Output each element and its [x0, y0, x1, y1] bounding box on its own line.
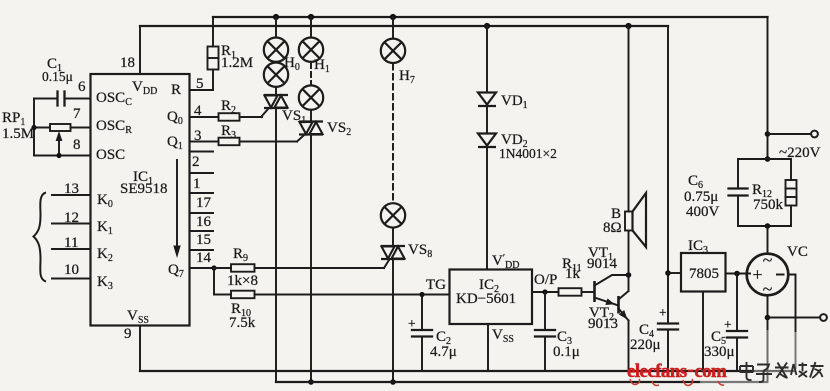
svg-text:Q0: Q0 [167, 109, 183, 127]
node dot Q7 [211, 265, 216, 270]
svg-text:9013: 9013 [588, 316, 618, 332]
node dot VS8 bottom [390, 379, 396, 385]
speaker B [625, 193, 646, 247]
transistor VT1 [595, 275, 630, 306]
wire: Q7 output [190, 267, 215, 269]
node dot H0 top [273, 14, 279, 20]
svg-text:17: 17 [196, 195, 212, 211]
IC2 KD-5601 [450, 270, 533, 325]
svg-text:1.5M: 1.5M [2, 126, 34, 142]
wire: triac bus line B [276, 381, 700, 383]
svg-text:3: 3 [194, 128, 202, 144]
svg-text:R9: R9 [233, 246, 248, 264]
svg-text:KD−5601: KD−5601 [456, 291, 516, 307]
svg-text:9014: 9014 [587, 256, 618, 272]
watermark red squiggles [630, 379, 724, 386]
capacitor C5 [727, 274, 747, 372]
wire: VS2 down to bus B [310, 135, 312, 383]
svg-text:H7: H7 [399, 68, 415, 86]
wire: VS1 down to bus B [275, 108, 277, 382]
node dot VS2 bottom [308, 379, 314, 385]
svg-text:1: 1 [193, 176, 201, 192]
node dot VT1 collector [626, 272, 632, 278]
svg-text:1k: 1k [565, 266, 581, 282]
svg-text:K3: K3 [97, 274, 113, 292]
arrow inside IC1 [173, 160, 180, 258]
node dot AC bottom tap [765, 315, 771, 321]
wire: VDD supply bus [140, 25, 668, 27]
svg-text:SE9518: SE9518 [120, 181, 168, 197]
capacitor C3 [535, 292, 555, 371]
wire: H7 dashed [392, 64, 394, 203]
wire: K2 pin11 [52, 248, 91, 250]
svg-text:0.1μ: 0.1μ [553, 344, 580, 360]
node dot IC3 input [665, 270, 671, 276]
lamp H8 column lower [381, 203, 405, 227]
svg-text:8: 8 [73, 137, 81, 153]
svg-text:~: ~ [763, 250, 773, 270]
svg-text:H1: H1 [314, 57, 330, 75]
svg-text:4.7μ: 4.7μ [430, 344, 457, 360]
IC3 7805 [681, 253, 726, 292]
svg-text:6: 6 [78, 79, 86, 95]
svg-text:V′DD: V′DD [492, 253, 519, 271]
svg-text:TG: TG [426, 277, 446, 293]
pin stub 16 [190, 212, 214, 214]
svg-text:12: 12 [64, 210, 79, 226]
pin stub 2 [190, 151, 214, 153]
svg-text:VSS: VSS [492, 327, 514, 345]
wire: left osc vertical [33, 99, 35, 156]
svg-text:VS1: VS1 [282, 108, 306, 126]
svg-text:220μ: 220μ [630, 337, 661, 353]
capacitor C2 [412, 295, 432, 372]
resistor R1 [190, 17, 219, 90]
svg-text:4: 4 [194, 103, 202, 119]
svg-text:16: 16 [196, 214, 212, 230]
svg-text:14: 14 [196, 250, 212, 266]
wire: H0 to VS1 [275, 87, 277, 95]
wire: H1 to VS2 [310, 110, 312, 122]
wire: VC right to line A corner [788, 275, 796, 333]
lamp H1 upper [299, 38, 323, 62]
svg-text:400V: 400V [686, 204, 720, 220]
svg-text:330μ: 330μ [704, 344, 735, 360]
svg-text:+: + [752, 265, 762, 285]
resistor R10 [214, 291, 450, 299]
capacitor C4 [658, 324, 678, 372]
triac VS1 [264, 95, 288, 108]
svg-text:+: + [724, 317, 732, 332]
wire: speaker to collectors [628, 231, 630, 292]
wire: lamp to VS8 [392, 228, 394, 246]
svg-text:9: 9 [124, 326, 132, 342]
svg-text:R2: R2 [221, 98, 236, 116]
node dot VD chain top [484, 23, 490, 29]
svg-text:15: 15 [196, 232, 211, 248]
svg-text:13: 13 [64, 181, 79, 197]
svg-text:+: + [408, 316, 416, 331]
wire: K3 pin10 [52, 278, 91, 280]
svg-text:K1: K1 [97, 219, 113, 237]
svg-text:OSCR: OSCR [96, 118, 132, 136]
svg-text:10: 10 [64, 262, 79, 278]
node dot AC top terminal tap [765, 131, 771, 137]
potentiometer RP1 [34, 124, 91, 156]
wire: IC3 gnd [702, 292, 704, 372]
lamp H7 [381, 39, 405, 63]
svg-text:VC: VC [787, 244, 808, 260]
svg-text:VSS: VSS [127, 308, 149, 326]
triac VS2 [299, 122, 323, 135]
svg-text:OSCC: OSCC [96, 90, 132, 108]
svg-text:7.5k: 7.5k [229, 315, 256, 331]
terminal AC bottom [820, 314, 827, 321]
svg-text:11: 11 [64, 235, 78, 251]
pin stub 1 [190, 172, 214, 174]
svg-text:VDD: VDD [132, 79, 157, 97]
wire: H1 drop [310, 17, 312, 38]
bridge rectifier VC [747, 250, 789, 299]
wire: top right corner down [767, 17, 769, 159]
resistor R12 [786, 159, 797, 226]
node dot RC net top [765, 156, 771, 162]
lamp H0 lower [264, 62, 288, 86]
wire: to IC3 left [668, 272, 681, 274]
wire: to AC top terminal [768, 133, 812, 135]
wire: pin8 OSC [34, 155, 91, 157]
svg-text:VD1: VD1 [501, 93, 528, 111]
wire: net to VC top [767, 226, 769, 254]
wire: Q7 split vertical [213, 268, 215, 295]
wire: VS8 down to bus B [392, 259, 394, 382]
wire: K0 pin13 [52, 194, 91, 196]
IC1 SE9518 [91, 74, 190, 326]
wire: ground bus line A [140, 370, 752, 372]
watermark chinese characters [740, 362, 824, 382]
resistor R2 [190, 109, 269, 121]
node dot speaker top [625, 23, 631, 29]
resistor R3 [190, 135, 305, 146]
lamp H1 lower [299, 85, 323, 109]
pin stub 17 [190, 192, 214, 194]
svg-text:VS8: VS8 [408, 242, 432, 260]
wire: IC2 VSS down [487, 324, 489, 371]
svg-text:1N4001×2: 1N4001×2 [499, 146, 557, 161]
resistor R11 [559, 288, 595, 296]
capacitor C1 [34, 92, 91, 106]
svg-text:0.15μ: 0.15μ [42, 69, 73, 84]
wire: O/P out [532, 291, 559, 293]
svg-text:K2: K2 [97, 246, 113, 264]
svg-text:+: + [659, 305, 667, 320]
svg-text:7: 7 [73, 106, 81, 122]
svg-text:IC3: IC3 [688, 238, 708, 256]
node dot H7 top [390, 14, 396, 20]
svg-text:1k×8: 1k×8 [227, 273, 258, 289]
svg-text:18: 18 [120, 55, 135, 71]
wire: VD chain upper [486, 26, 488, 93]
svg-text:R3: R3 [221, 123, 236, 141]
wire: top lamp bus [213, 16, 768, 18]
diode VD1 [478, 93, 496, 107]
svg-text:8Ω: 8Ω [603, 220, 622, 236]
svg-text:7805: 7805 [689, 266, 719, 282]
wire: to AC bottom terminal [768, 317, 821, 319]
capacitor C6 [729, 159, 748, 226]
resistor R9 [214, 259, 390, 272]
wire: H0 drop [275, 17, 277, 38]
lamp H0 upper [264, 38, 288, 62]
node dot C3 tap [542, 289, 547, 294]
svg-text:elecfans-com: elecfans-com [627, 359, 727, 382]
terminal AC top [811, 131, 818, 138]
svg-text:K0: K0 [97, 192, 113, 210]
svg-text:5: 5 [196, 76, 204, 92]
wire: pin18 VDD riser [139, 26, 141, 74]
svg-text:Q7: Q7 [168, 262, 184, 280]
node dot RC net bottom [765, 223, 771, 229]
wire: RC net top bar [738, 158, 791, 160]
svg-text:2: 2 [192, 154, 200, 170]
wire: VC bottom down [767, 295, 769, 330]
transistor VT2 [619, 291, 629, 371]
svg-text:1.2M: 1.2M [221, 55, 253, 71]
brace for K inputs [34, 193, 47, 282]
svg-text:OSC: OSC [96, 147, 125, 163]
pin stub 14 [190, 249, 214, 251]
triac VS8 [381, 246, 405, 259]
node dot H1 top [308, 14, 314, 20]
svg-text:R: R [171, 82, 181, 98]
wire: VD1 to VD2 [486, 106, 488, 134]
wire: right VDD branch down [667, 26, 669, 324]
diode VD2 [478, 134, 496, 148]
svg-text:VS2: VS2 [327, 120, 351, 138]
pin stub 15 [190, 230, 214, 232]
svg-text:O/P: O/P [534, 272, 557, 288]
wire: RC net bottom bar [738, 225, 791, 227]
svg-text:750k: 750k [753, 197, 784, 213]
wire: H7 drop [392, 17, 394, 39]
wire: IC3 right to VC [726, 273, 751, 275]
wire: speaker drop [628, 26, 630, 212]
node dot RP1-left [31, 125, 36, 130]
svg-text:0.75μ: 0.75μ [684, 189, 718, 205]
wire: H1 dashed [310, 63, 312, 86]
node dot wiper [56, 153, 61, 158]
wire: pin9 VSS down [139, 326, 141, 372]
wire: VD2 to IC2 [486, 147, 488, 270]
svg-text:H0: H0 [284, 55, 300, 73]
node dot C5 tap [734, 271, 740, 277]
wire: K1 pin12 [52, 223, 91, 225]
svg-text:Q1: Q1 [167, 134, 183, 152]
node dot C2 tap [419, 292, 424, 297]
